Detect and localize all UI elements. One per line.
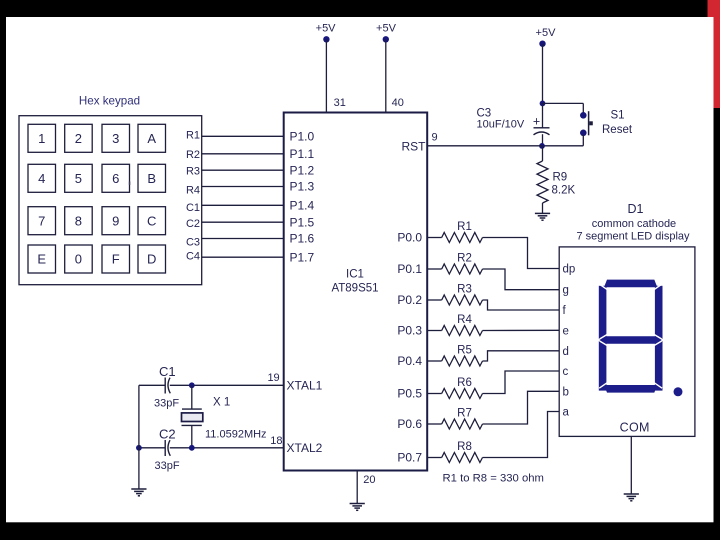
keypad pin label R4 <box>186 184 200 196</box>
svg-text:g: g <box>563 285 569 297</box>
svg-text:d: d <box>563 346 569 358</box>
svg-text:P1.6: P1.6 <box>290 232 315 246</box>
stray mark near key 6 <box>129 182 131 185</box>
switch S1 plunger <box>589 111 593 135</box>
svg-text:10uF/10V: 10uF/10V <box>477 119 525 131</box>
crystal X1 body <box>182 413 203 422</box>
wire R4 to display pin <box>483 329 560 331</box>
label 33pF C2 <box>155 460 180 472</box>
resistor R8 <box>442 453 483 463</box>
label 33pF C1 <box>154 398 179 410</box>
svg-text:1: 1 <box>38 131 45 146</box>
display pin label f <box>563 305 567 317</box>
svg-text:P1.3: P1.3 <box>290 180 315 194</box>
pin label P1.4 <box>290 199 315 213</box>
svg-text:a: a <box>563 407 570 419</box>
svg-text:C2: C2 <box>186 218 200 230</box>
wire node B to R9 <box>542 146 544 161</box>
pin label XTAL1 <box>287 379 323 393</box>
svg-text:+5V: +5V <box>316 23 337 35</box>
capacitor C3 plus sign <box>533 114 540 128</box>
svg-text:R3: R3 <box>457 284 472 296</box>
keypad key A <box>138 124 166 152</box>
label R2 <box>457 253 472 265</box>
pin label P0.4 <box>397 354 422 368</box>
pin number 20 <box>363 474 375 486</box>
svg-text:C3: C3 <box>186 236 200 248</box>
segment d (bottom) <box>604 385 657 393</box>
IC name IC1 <box>346 269 364 281</box>
wire switch to node B <box>543 145 584 147</box>
display pin label e <box>563 325 569 337</box>
wire R3 to display pin <box>483 300 560 310</box>
wire node C to crystal <box>191 385 193 409</box>
svg-text:R7: R7 <box>457 408 472 420</box>
svg-text:D: D <box>147 252 156 267</box>
wire P0.4 to R5 <box>427 360 442 362</box>
label 11.0592MHz <box>205 428 267 440</box>
svg-text:P1.4: P1.4 <box>290 199 315 213</box>
wire R1 to P1.0 <box>202 135 285 137</box>
wire P0.1 to R2 <box>427 268 442 270</box>
keypad pin label C1 <box>186 202 200 214</box>
label 10uF/10V <box>477 119 525 131</box>
keypad key 1 <box>28 124 56 152</box>
label COM <box>620 421 650 435</box>
wire C2 to XTAL2 <box>170 447 285 449</box>
label C1 <box>159 364 176 379</box>
wire P0.6 to R7 <box>427 423 442 425</box>
wire R9 to ground <box>542 203 544 213</box>
IC1 AT89S51 body <box>284 113 428 471</box>
pin label P0.3 <box>397 324 422 338</box>
svg-text:R9: R9 <box>553 172 568 184</box>
wire caps common <box>138 385 140 489</box>
svg-text:7: 7 <box>38 213 45 228</box>
pin number 18 <box>270 435 282 447</box>
IC part AT89S51 <box>331 283 378 295</box>
node D junction dot <box>189 445 195 451</box>
svg-text:+: + <box>533 114 540 128</box>
wire C1 to XTAL1 <box>170 384 285 386</box>
resistor R7 <box>442 419 483 429</box>
wire R5 to display pin <box>483 351 560 361</box>
pin label P0.5 <box>397 387 422 401</box>
wire R3 to P1.2 <box>202 169 285 171</box>
svg-text:19: 19 <box>267 372 279 384</box>
pin label P0.7 <box>397 451 422 465</box>
pin number 31 <box>334 97 346 109</box>
wire P0.0 to R1 <box>427 237 442 239</box>
wire C2 to P1.5 <box>202 221 285 223</box>
+5V label pin31 <box>316 23 337 35</box>
wire R8 to display pin <box>483 412 560 458</box>
svg-text:COM: COM <box>620 421 650 435</box>
ground crystal <box>131 489 146 496</box>
resistor R5 <box>442 356 483 366</box>
svg-text:S1: S1 <box>611 110 625 122</box>
svg-text:8: 8 <box>75 213 82 228</box>
display D1 outline <box>559 247 695 437</box>
svg-text:P0.7: P0.7 <box>397 451 422 465</box>
svg-text:3: 3 <box>112 131 119 146</box>
svg-text:31: 31 <box>334 97 346 109</box>
segment a (top) <box>604 280 657 288</box>
svg-text:common cathode: common cathode <box>592 218 676 230</box>
wire pin20 to ground <box>356 471 358 504</box>
pin number 9 <box>432 132 438 144</box>
wire P0.3 to R4 <box>427 330 442 332</box>
crystal X1 top plate <box>182 408 202 410</box>
keypad pin label R3 <box>186 166 200 178</box>
+5V terminal dot reset <box>539 41 545 47</box>
segment e (bottom-left) <box>599 341 607 390</box>
svg-text:6: 6 <box>112 171 119 186</box>
capacitor C3 top plate <box>534 127 550 129</box>
display pin label a <box>563 407 570 419</box>
pin label P0.6 <box>397 417 422 431</box>
pin number 19 <box>267 372 279 384</box>
label R5 <box>457 345 472 357</box>
svg-text:R4: R4 <box>186 184 200 196</box>
svg-text:Reset: Reset <box>602 124 633 136</box>
svg-text:X 1: X 1 <box>213 397 230 409</box>
switch S1 top contact <box>580 112 587 119</box>
keypad key 9 <box>102 207 130 235</box>
segment c (bottom-right) <box>655 341 663 390</box>
svg-text:XTAL2: XTAL2 <box>287 441 323 455</box>
pin label RST <box>402 139 427 153</box>
ground R9 <box>535 213 550 220</box>
node B junction dot <box>539 143 545 149</box>
svg-text:20: 20 <box>363 474 375 486</box>
svg-text:P0.4: P0.4 <box>397 354 422 368</box>
wire crystal to XTAL2 row <box>191 425 193 447</box>
svg-text:XTAL1: XTAL1 <box>287 379 323 393</box>
keypad key B <box>138 164 166 192</box>
svg-text:4: 4 <box>38 171 45 186</box>
svg-text:P1.7: P1.7 <box>290 250 315 264</box>
svg-text:+5V: +5V <box>376 23 397 35</box>
svg-text:+5V: +5V <box>536 27 557 39</box>
capacitor C1 <box>165 378 170 394</box>
wire COM to ground <box>630 436 632 494</box>
wire R2 to display pin <box>483 269 560 290</box>
label R1 to R8 = 330 ohm <box>443 473 544 485</box>
keypad pin label C2 <box>186 218 200 230</box>
wire +5V to pin40 <box>385 39 387 112</box>
wire R4 to P1.3 <box>202 186 285 188</box>
label Reset <box>602 124 633 136</box>
keypad pin label R1 <box>186 130 200 142</box>
pin label P1.2 <box>290 163 315 177</box>
wire C3 to node B <box>542 134 544 146</box>
label R9 <box>553 172 568 184</box>
display pin label d <box>563 346 569 358</box>
label C3 <box>477 108 492 120</box>
keypad key 7 <box>28 207 56 235</box>
svg-text:18: 18 <box>270 435 282 447</box>
svg-text:40: 40 <box>392 97 404 109</box>
svg-text:P0.5: P0.5 <box>397 387 422 401</box>
svg-text:dp: dp <box>563 264 576 276</box>
pin label P1.3 <box>290 180 315 194</box>
keypad key D <box>138 245 166 273</box>
digit segment separators <box>599 284 662 388</box>
label R8 <box>457 441 472 453</box>
pin label P0.0 <box>397 231 422 245</box>
keypad pin label C3 <box>186 236 200 248</box>
svg-text:11.0592MHz: 11.0592MHz <box>205 428 267 440</box>
label R7 <box>457 408 472 420</box>
svg-text:R5: R5 <box>457 345 472 357</box>
wire node A to C3 <box>542 103 544 127</box>
keypad key C <box>138 207 166 235</box>
svg-text:0: 0 <box>75 252 82 267</box>
+5V label pin40 <box>376 23 397 35</box>
label R6 <box>457 377 472 389</box>
wire switch bottom lead <box>582 135 584 146</box>
resistor R6 <box>442 389 483 399</box>
display pin label dp <box>563 264 576 276</box>
svg-text:9: 9 <box>112 213 119 228</box>
segment b (top-right) <box>655 286 663 339</box>
segment f (top-left) <box>599 286 607 339</box>
wire C3 to P1.6 <box>202 238 285 240</box>
svg-text:e: e <box>563 325 569 337</box>
display pin label g <box>563 285 569 297</box>
pin number 40 <box>392 97 404 109</box>
wire C1 to P1.4 <box>202 204 285 206</box>
segment g (middle) <box>600 336 662 344</box>
capacitor C3 bottom plate <box>534 132 550 135</box>
pin label P1.0 <box>290 130 315 144</box>
svg-text:E: E <box>37 252 46 267</box>
wire R6 to display pin <box>483 371 560 394</box>
svg-text:C: C <box>147 213 156 228</box>
label S1 <box>611 110 625 122</box>
wire RST <box>427 145 542 147</box>
svg-text:R1: R1 <box>457 221 472 233</box>
label 7 segment LED display <box>576 230 690 242</box>
svg-text:R4: R4 <box>457 314 472 326</box>
keypad key 3 <box>102 124 130 152</box>
pin label XTAL2 <box>287 441 323 455</box>
svg-text:P0.0: P0.0 <box>397 231 422 245</box>
svg-text:P1.2: P1.2 <box>290 163 315 177</box>
+5V label reset <box>536 27 557 39</box>
svg-text:7 segment LED display: 7 segment LED display <box>576 230 690 242</box>
node E junction dot <box>136 445 142 451</box>
svg-text:AT89S51: AT89S51 <box>331 283 378 295</box>
svg-text:R1 to R8 = 330 ohm: R1 to R8 = 330 ohm <box>443 473 544 485</box>
resistor R1 <box>442 233 483 243</box>
svg-text:P0.2: P0.2 <box>397 293 422 307</box>
svg-text:P1.1: P1.1 <box>290 147 315 161</box>
svg-text:c: c <box>563 366 569 378</box>
keypad title Hex keypad <box>79 95 140 108</box>
svg-text:C2: C2 <box>159 427 176 442</box>
keypad key 6 <box>102 164 130 192</box>
crystal X1 bottom plate <box>182 424 202 426</box>
svg-text:P0.3: P0.3 <box>397 324 422 338</box>
keypad key F <box>102 245 130 273</box>
svg-text:R3: R3 <box>186 166 200 178</box>
pin label P1.6 <box>290 232 315 246</box>
svg-text:B: B <box>147 171 156 186</box>
svg-text:R8: R8 <box>457 441 472 453</box>
wire +5V to node A <box>542 44 544 104</box>
svg-text:b: b <box>563 386 569 398</box>
display pin label b <box>563 386 569 398</box>
label R3 <box>457 284 472 296</box>
label C2 <box>159 427 176 442</box>
wire R1 to display pin <box>483 238 560 269</box>
pin label P1.5 <box>290 215 315 229</box>
wire R7 to display pin <box>483 391 560 424</box>
keypad key E <box>28 245 56 273</box>
red banner strip <box>708 0 720 108</box>
resistor R3 <box>442 295 483 305</box>
svg-text:P0.6: P0.6 <box>397 417 422 431</box>
keypad key 5 <box>65 164 93 192</box>
+5V terminal dot pin40 <box>383 36 389 42</box>
wire +5V to pin31 <box>325 39 327 112</box>
svg-text:C4: C4 <box>186 250 200 262</box>
+5V terminal dot pin31 <box>323 36 329 42</box>
ground display <box>624 494 639 501</box>
label common cathode <box>592 218 676 230</box>
svg-text:5: 5 <box>75 171 82 186</box>
hex keypad outline <box>19 116 202 285</box>
svg-text:8.2K: 8.2K <box>552 185 576 197</box>
node C junction dot <box>189 382 195 388</box>
resistor R4 <box>442 326 483 336</box>
svg-text:R6: R6 <box>457 377 472 389</box>
keypad key 2 <box>65 124 93 152</box>
resistor R9 <box>537 161 548 203</box>
svg-text:R2: R2 <box>457 253 472 265</box>
wire P0.5 to R6 <box>427 393 442 395</box>
svg-text:C1: C1 <box>186 202 200 214</box>
node A junction dot <box>540 101 546 107</box>
svg-text:R2: R2 <box>186 149 200 161</box>
label R1 <box>457 221 472 233</box>
keypad key 0 <box>65 245 93 273</box>
svg-text:A: A <box>147 131 156 146</box>
svg-text:P1.0: P1.0 <box>290 130 315 144</box>
svg-text:D1: D1 <box>628 202 644 216</box>
pin label P0.1 <box>397 262 422 276</box>
wire R2 to P1.1 <box>202 153 285 155</box>
display pin label c <box>563 366 569 378</box>
wire XTAL1 left segment <box>139 384 165 386</box>
ground pin20 <box>350 504 365 511</box>
svg-text:Hex keypad: Hex keypad <box>79 95 140 108</box>
keypad pin label R2 <box>186 149 200 161</box>
label D1 <box>628 202 644 216</box>
wire switch top lead <box>582 103 584 113</box>
svg-text:P0.1: P0.1 <box>397 262 422 276</box>
label X1 <box>213 397 230 409</box>
keypad key 4 <box>28 164 56 192</box>
pin label P1.7 <box>290 250 315 264</box>
label 8.2K <box>552 185 576 197</box>
wire node A to switch <box>543 102 584 104</box>
switch S1 bottom contact <box>580 130 587 137</box>
label R4 <box>457 314 472 326</box>
wire XTAL2 left segment <box>139 447 165 449</box>
keypad pin label C4 <box>186 250 200 262</box>
wire P0.2 to R3 <box>427 299 442 301</box>
pin label P0.2 <box>397 293 422 307</box>
svg-text:33pF: 33pF <box>155 460 180 472</box>
svg-text:F: F <box>112 252 120 267</box>
pin label P1.1 <box>290 147 315 161</box>
svg-text:R1: R1 <box>186 130 200 142</box>
svg-text:33pF: 33pF <box>154 398 179 410</box>
svg-text:RST: RST <box>402 139 427 153</box>
wire P0.7 to R8 <box>427 457 442 459</box>
resistor R2 <box>442 264 483 274</box>
svg-text:C1: C1 <box>159 364 176 379</box>
capacitor C2 <box>165 440 170 456</box>
svg-text:P1.5: P1.5 <box>290 215 315 229</box>
svg-text:IC1: IC1 <box>346 269 364 281</box>
wire C4 to P1.7 <box>202 256 285 258</box>
svg-text:9: 9 <box>432 132 438 144</box>
keypad key 8 <box>65 207 93 235</box>
svg-text:2: 2 <box>75 131 82 146</box>
decimal point dp <box>674 387 683 396</box>
